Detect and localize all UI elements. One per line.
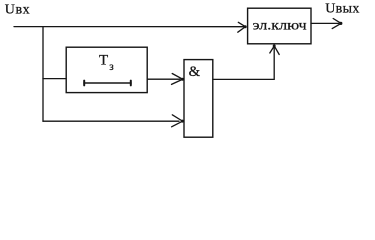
wire: vertical branch from main line down	[42, 27, 44, 122]
wire: & gate output, right then up to эл.ключ bottom	[213, 48, 274, 80]
svg-text:Uвх: Uвх	[5, 3, 30, 18]
pulse-width bar inside Тз	[84, 81, 131, 86]
arrowhead + dot at output (node Uвых)	[332, 19, 342, 29]
svg-text:Uвых: Uвых	[325, 1, 360, 16]
svg-text:з: з	[109, 61, 114, 73]
svg-text:эл.ключ: эл.ключ	[253, 19, 307, 34]
block U1: эл.ключ (electronic switch)	[248, 8, 311, 44]
svg-text:Т: Т	[99, 52, 108, 68]
wire: branch into Тз block	[43, 78, 66, 80]
wire: Тз output to & gate	[147, 78, 180, 80]
wire: main input line from Uвх to эл.ключ	[14, 26, 244, 28]
wire: output line from эл.ключ	[311, 22, 339, 24]
arrowhead + dot into эл.ключ bottom	[270, 45, 279, 55]
arrowhead + dot at эл.ключ input	[238, 22, 247, 32]
wire: lower input line to & gate	[43, 120, 179, 122]
svg-text:&: &	[189, 64, 201, 80]
arrowhead + dot at & gate lower input	[172, 115, 184, 127]
block U3: & (AND gate)	[184, 60, 213, 138]
block U2: Тз (delay timer)	[66, 47, 147, 92]
arrowhead + dot at & gate upper input	[172, 74, 185, 85]
